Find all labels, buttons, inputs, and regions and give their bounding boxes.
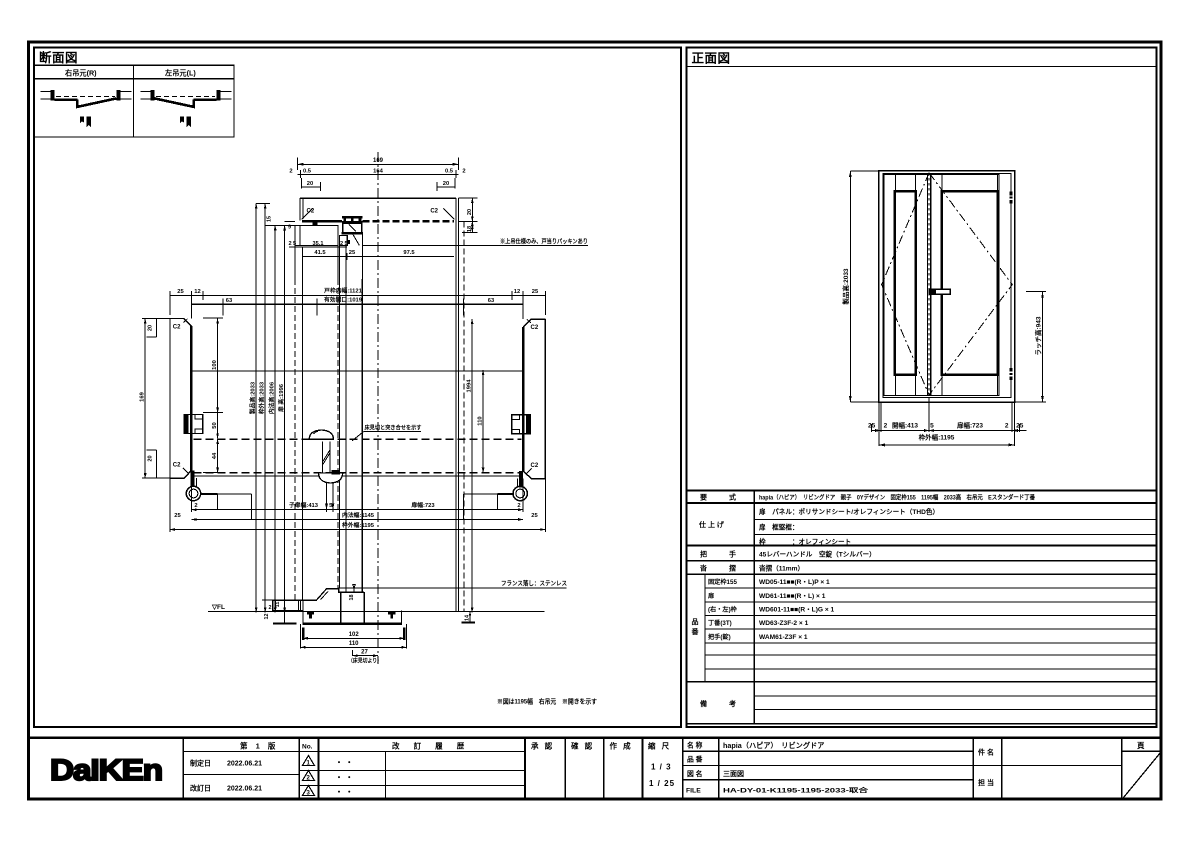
svg-text:（床見切より）: （床見切より） — [348, 657, 382, 665]
dim 100 vertical — [203, 318, 223, 413]
dim row2 line — [298, 170, 459, 178]
svg-text:把手(錠): 把手(錠) — [708, 633, 731, 641]
right jamb C2 top leader — [527, 319, 531, 323]
bottom dim row2 line — [879, 444, 1015, 446]
page cell diagonal — [1122, 751, 1162, 799]
spec table thin row lines 備考 — [754, 696, 1156, 710]
row1 down arrows at 413/5 — [191, 504, 523, 511]
svg-text:枠外高:2033: 枠外高:2033 — [257, 381, 265, 414]
svg-text:固定枠155: 固定枠155 — [708, 578, 737, 586]
dim 44 vertical — [203, 439, 223, 473]
svg-text:2022.06.21: 2022.06.21 — [227, 761, 262, 768]
height dim line 製品高 — [255, 204, 257, 613]
svg-text:制定日: 制定日 — [190, 759, 211, 768]
svg-text:製品高:2033: 製品高:2033 — [248, 381, 256, 414]
sill step profile — [285, 589, 364, 600]
bottom dim row2 line — [191, 519, 523, 521]
svg-text:作 成: 作 成 — [610, 741, 633, 751]
sill T-clip left — [307, 611, 314, 619]
svg-text:・ ・: ・ ・ — [335, 788, 353, 797]
svg-text:内法高:2006: 内法高:2006 — [267, 381, 275, 414]
right hinge mortise fill — [526, 415, 530, 434]
label 床見切 leader — [352, 431, 421, 441]
labels column — [691, 493, 737, 709]
svg-text:20: 20 — [467, 209, 473, 215]
svg-text:第 1 版: 第 1 版 — [240, 741, 278, 751]
svg-text:41.5: 41.5 — [314, 250, 326, 256]
svg-text:左吊元(L): 左吊元(L) — [164, 69, 196, 78]
svg-text:2: 2 — [1005, 423, 1009, 430]
svg-text:枠 ：オレフィンシート: 枠 ：オレフィンシート — [759, 537, 851, 546]
svg-text:式: 式 — [729, 493, 736, 502]
dim 20 left bracket — [302, 178, 321, 191]
svg-text:20: 20 — [307, 181, 313, 187]
svg-text:1 / 25: 1 / 25 — [649, 779, 675, 788]
L-cell frame face thick line — [194, 98, 217, 100]
top dim texts row1: 25 12 戸枠内幅 12 25 — [177, 287, 539, 296]
attachment top tick — [313, 223, 318, 226]
R-cell frame face thick line — [55, 98, 78, 100]
child door swing dash-dot — [882, 173, 930, 395]
dim 35.1 line — [289, 244, 347, 251]
left jamb top edge with chamfer — [170, 319, 191, 327]
handle rose — [929, 289, 936, 294]
opening header line — [191, 370, 523, 372]
svg-text:25: 25 — [531, 513, 538, 519]
seitei/kaitei divider — [183, 774, 299, 776]
svg-text:25: 25 — [349, 250, 356, 256]
svg-text:考: 考 — [729, 699, 736, 708]
L-cell wall lines right — [221, 91, 232, 99]
small box right of attachment — [340, 235, 348, 245]
svg-text:製品高:2033: 製品高:2033 — [841, 268, 850, 306]
dim 102 line — [303, 637, 404, 639]
head frame top line — [300, 197, 456, 199]
left dim 製品高 line — [849, 171, 851, 402]
bottom dim extension verticals — [872, 397, 1020, 446]
left hinge leader — [202, 493, 218, 495]
hinge-type table header underline — [34, 78, 234, 80]
top ticks of height dims — [256, 204, 295, 226]
svg-text:品: 品 — [692, 617, 699, 626]
main door swing dash-dot — [929, 173, 1012, 395]
dim 102 bold end ticks — [302, 628, 304, 641]
svg-text:扉 パネル：ポリサンドシート/オレフィンシート（THD色）: 扉 パネル：ポリサンドシート/オレフィンシート（THD色） — [759, 507, 939, 516]
spec table thin row lines 品番 — [705, 588, 1156, 669]
left panel frame (sectional views) — [34, 48, 681, 728]
latch plate black — [332, 470, 341, 474]
right dashed vertical — [463, 221, 465, 611]
right jamb long verticals — [456, 279, 459, 611]
revision triangle 1 — [303, 756, 315, 766]
door frame inner rect — [883, 173, 1011, 397]
meeting stile left line — [927, 175, 929, 396]
top dim row2 line — [191, 303, 523, 305]
svg-text:25: 25 — [868, 423, 876, 430]
right hinge circle inner — [516, 489, 525, 498]
child door stile lines — [896, 175, 916, 396]
bottom dim row1 line — [872, 430, 1027, 432]
svg-text:25: 25 — [177, 289, 184, 295]
svg-text:FILE: FILE — [686, 788, 701, 795]
sill base inner verticals — [341, 592, 365, 624]
sill left dim ticks — [262, 600, 285, 610]
bottom dim row1 texts — [194, 501, 520, 509]
door leaf band top dashed — [194, 438, 522, 440]
left jamb C2 bottom leader — [183, 468, 189, 474]
svg-text:C2: C2 — [531, 463, 539, 469]
door top rail dark band — [343, 221, 362, 224]
svg-text:WD601-11■■(R・L)G × 1: WD601-11■■(R・L)G × 1 — [759, 607, 835, 614]
svg-text:HA-DY-01-K1195-1195-2033-取合: HA-DY-01-K1195-1195-2033-取合 — [723, 787, 869, 795]
svg-text:1 / 3: 1 / 3 — [651, 763, 672, 772]
svg-text:1994: 1994 — [467, 379, 473, 393]
svg-text:No.: No. — [302, 744, 313, 751]
left jamb bottom edge with chamfer — [170, 471, 191, 479]
svg-text:番: 番 — [691, 627, 700, 636]
left hinge circle inner — [189, 489, 198, 498]
svg-text:フランス落し：ステンレス: フランス落し：ステンレス — [501, 580, 567, 588]
svg-text:2: 2 — [517, 503, 520, 509]
svg-text:枠外幅:1195: 枠外幅:1195 — [342, 521, 375, 529]
head frame left edge double — [300, 198, 303, 221]
small black square — [346, 240, 350, 244]
handle top inner mark — [314, 431, 319, 434]
svg-text:改 訂 履 歴: 改 訂 履 歴 — [392, 741, 470, 751]
page cell row line — [1122, 750, 1162, 752]
svg-text:C2: C2 — [531, 325, 539, 331]
height dim arrows bottom — [255, 608, 286, 613]
svg-text:戸枠内幅:1121: 戸枠内幅:1121 — [324, 287, 362, 295]
svg-text:169: 169 — [140, 391, 146, 401]
dim 169 line with ends — [298, 158, 459, 171]
meeting stile right line — [930, 175, 932, 396]
centre axis dash-dot line — [377, 152, 379, 664]
head frame right edge double — [456, 198, 459, 279]
svg-text:100: 100 — [212, 360, 218, 370]
svg-text:頁: 頁 — [1137, 741, 1145, 750]
head right dim arrows — [471, 198, 474, 232]
svg-text:2022.06.21: 2022.06.21 — [227, 786, 262, 793]
right dim arrows — [471, 319, 485, 612]
svg-text:25: 25 — [1016, 423, 1024, 430]
svg-text:※図は1195幅 右吊元 ※開きを示す: ※図は1195幅 右吊元 ※開きを示す — [497, 696, 598, 705]
svg-text:18: 18 — [349, 595, 355, 601]
left hinge circle outer — [186, 486, 200, 500]
svg-text:2: 2 — [462, 169, 465, 175]
revision row lines — [299, 770, 525, 772]
svg-text:hapia（ハピア） リビングドア: hapia（ハピア） リビングドア — [723, 741, 824, 750]
left hinge mortise — [184, 415, 203, 434]
left hinge stem — [191, 471, 195, 487]
dim 18 in sill — [353, 584, 355, 592]
right hinge mortise — [512, 415, 531, 434]
svg-text:床見切と突き合せを示す: 床見切と突き合せを示す — [365, 424, 422, 432]
L-cell section cut symbol — [180, 117, 191, 128]
svg-text:20: 20 — [147, 455, 153, 461]
L-cell right jamb block — [216, 90, 220, 101]
svg-text:20: 20 — [443, 181, 449, 187]
right jamb inner face — [522, 327, 524, 471]
svg-text:沓摺（11mm）: 沓摺（11mm） — [758, 564, 804, 573]
svg-text:ラッチ高:943: ラッチ高:943 — [1033, 316, 1042, 355]
child door panel rect — [895, 191, 916, 374]
bottom dim row1 arrows — [875, 429, 1018, 432]
品番 sub labels — [707, 578, 738, 641]
svg-text:・ ・: ・ ・ — [335, 758, 353, 767]
svg-text:hapia（ハピア） リビングドア 親子 0Yデザイン 固定: hapia（ハピア） リビングドア 親子 0Yデザイン 固定枠155 1195幅… — [759, 494, 1036, 502]
svg-text:DaIKEn: DaIKEn — [50, 754, 162, 787]
right dim ラッチ高 extension lines — [1015, 292, 1046, 402]
R-cell wall lines left — [41, 91, 52, 99]
attachment inner vertical — [299, 225, 301, 245]
name column row lines — [683, 750, 973, 752]
svg-text:12: 12 — [194, 289, 200, 295]
svg-text:断面図: 断面図 — [39, 50, 78, 65]
step hatch — [318, 591, 329, 600]
svg-text:正面図: 正面図 — [692, 52, 731, 66]
svg-text:27: 27 — [361, 649, 368, 655]
hinge top — [1010, 192, 1013, 204]
R-cell wall lines right — [121, 91, 132, 99]
svg-text:扉幅:723: 扉幅:723 — [957, 421, 983, 430]
svg-text:110: 110 — [478, 416, 484, 425]
sill base sides — [303, 611, 402, 624]
svg-text:12: 12 — [264, 614, 270, 620]
svg-text:・ ・: ・ ・ — [335, 773, 353, 782]
dim row 41.5 / 25 / 97.5 texts — [314, 250, 415, 256]
spindle break marks — [323, 450, 330, 465]
revision header row line — [183, 750, 525, 752]
dim 50 vertical — [217, 413, 219, 439]
svg-text:▽FL: ▽FL — [211, 604, 225, 611]
R-cell left jamb block — [50, 90, 54, 101]
door leaves outline rect — [884, 175, 999, 396]
svg-text:102: 102 — [349, 632, 360, 638]
svg-text:12: 12 — [514, 289, 520, 295]
right hinge mortise notch — [512, 415, 520, 434]
svg-text:WAM61-Z3F × 1: WAM61-Z3F × 1 — [759, 634, 808, 641]
svg-text:C2: C2 — [430, 209, 438, 215]
svg-text:(右・左)枠: (右・左)枠 — [708, 606, 738, 614]
svg-text:扉幅:723: 扉幅:723 — [410, 501, 435, 509]
title block vertical dividers — [183, 738, 1122, 800]
revision triangle 3 — [303, 786, 315, 796]
svg-text:2: 2 — [340, 241, 343, 247]
content column — [758, 494, 1036, 641]
hinge-type table border — [34, 65, 234, 137]
svg-text:丁番(3T): 丁番(3T) — [708, 619, 732, 627]
right hinge stem — [519, 471, 523, 487]
dim texts 2 5 35.1 2 5 — [288, 241, 347, 247]
svg-text:承 認: 承 認 — [531, 741, 554, 751]
spec table 品番 sub divider — [704, 574, 706, 681]
head frame bottom face left part — [302, 220, 342, 222]
svg-text:2: 2 — [288, 241, 291, 247]
note leader line — [362, 244, 588, 246]
svg-text:110: 110 — [349, 641, 359, 647]
svg-text:14: 14 — [465, 615, 471, 621]
spec table thick section lines — [687, 491, 1157, 724]
dim 27 tick — [352, 650, 354, 656]
svg-text:名 称: 名 称 — [687, 741, 703, 750]
height dim line 枠外高 — [264, 204, 266, 613]
right hinge leader — [497, 493, 513, 495]
L-cell left jamb block — [150, 90, 154, 101]
left 169 dim line — [144, 319, 146, 479]
door core diagonal hatch — [349, 225, 356, 232]
svg-text:18: 18 — [467, 226, 473, 232]
svg-text:WD05-11■■(R・L)P × 1: WD05-11■■(R・L)P × 1 — [759, 579, 830, 586]
svg-text:WD63-Z3F-2 × 1: WD63-Z3F-2 × 1 — [759, 620, 809, 627]
right jamb outer edge — [544, 319, 546, 479]
right jamb C2 bottom leader — [526, 469, 532, 475]
L-cell closed-door dash line — [156, 95, 215, 97]
svg-text:44: 44 — [212, 452, 218, 459]
svg-text:件 名: 件 名 — [978, 748, 994, 757]
bottom dim row1 line — [191, 509, 523, 511]
left dim 製品高 extension lines — [850, 171, 879, 402]
svg-text:2: 2 — [194, 503, 197, 509]
right panel title underline — [687, 65, 1157, 67]
svg-text:20: 20 — [147, 325, 153, 331]
height dim arrows top — [255, 204, 286, 231]
dim 110 ext verticals — [301, 624, 407, 649]
svg-text:C2: C2 — [173, 463, 181, 469]
main door panel rect — [942, 191, 998, 374]
revision triangle 2 — [303, 771, 315, 781]
head frame bottom face right part (door stop, dashed) — [363, 220, 454, 222]
svg-text:2: 2 — [884, 423, 888, 430]
svg-text:0.5: 0.5 — [445, 169, 454, 175]
svg-text:品 番: 品 番 — [687, 755, 703, 764]
spec table thin row lines 仕上げ — [754, 519, 1156, 534]
svg-text:15: 15 — [267, 216, 273, 222]
bottom dim extension verticals — [170, 478, 545, 532]
svg-text:扉 高:1996: 扉 高:1996 — [277, 383, 285, 413]
svg-text:2: 2 — [269, 605, 272, 611]
svg-text:縮 尺: 縮 尺 — [648, 741, 671, 751]
svg-text:内法幅:1145: 内法幅:1145 — [342, 511, 375, 519]
svg-text:扉 框堅框：: 扉 框堅框： — [759, 523, 799, 532]
svg-text:改訂日: 改訂日 — [190, 784, 211, 793]
dim 169 arrows — [298, 163, 459, 166]
svg-text:25: 25 — [532, 289, 539, 295]
bottom dim row1 texts — [868, 421, 1024, 430]
main door stile lines — [942, 175, 997, 396]
sill base bottom thick — [303, 622, 403, 625]
svg-text:97.5: 97.5 — [403, 250, 415, 256]
door top rail bottom thick — [342, 232, 363, 235]
door top rail body — [343, 222, 362, 234]
dim row line 41.5/25/97.5 — [302, 253, 454, 260]
sill left attachment box — [273, 600, 303, 610]
dim 110 line — [301, 646, 407, 648]
63 dim end ticks — [223, 299, 463, 316]
left chamfer C2 — [302, 208, 313, 219]
right chamfer C2 — [443, 208, 454, 219]
left hinge mortise fill — [184, 415, 189, 434]
row1 tick lines at meeting stile — [327, 494, 333, 510]
door top rail tabs — [343, 219, 346, 222]
svg-text:確 認: 確 認 — [570, 741, 594, 751]
door frame outer rect — [879, 171, 1015, 403]
left 20 dim top — [142, 319, 170, 337]
svg-text:63: 63 — [226, 298, 233, 304]
svg-text:0.5: 0.5 — [303, 169, 312, 175]
svg-text:要: 要 — [700, 493, 707, 502]
svg-text:三面図: 三面図 — [723, 769, 744, 778]
svg-text:把: 把 — [700, 550, 707, 559]
svg-text:※上吊仕様のみ、戸当りパッキンあり: ※上吊仕様のみ、戸当りパッキンあり — [500, 237, 588, 245]
right dim ラッチ高 line — [1042, 292, 1044, 402]
hinge bottom — [1010, 368, 1013, 380]
right hinge circle outer — [513, 486, 527, 500]
svg-text:子扉幅:413: 子扉幅:413 — [289, 501, 319, 509]
rev-history inner divider — [385, 751, 387, 799]
bottom dim row2 texts — [174, 511, 538, 519]
svg-text:摺: 摺 — [729, 564, 736, 573]
head left attachment box — [295, 225, 338, 245]
svg-text:5: 5 — [930, 423, 934, 430]
height dim line 内法高 — [274, 225, 276, 612]
floor line FL — [208, 611, 544, 613]
door top cap thick — [342, 216, 363, 219]
R-cell closed-door dash line — [56, 95, 115, 97]
svg-text:WD61-11■■(R・L) × 1: WD61-11■■(R・L) × 1 — [759, 593, 826, 600]
svg-text:右吊元(R): 右吊元(R) — [64, 69, 97, 78]
svg-text:図 名: 図 名 — [687, 769, 702, 778]
svg-text:有効開口:1019: 有効開口:1019 — [324, 296, 363, 304]
left jamb outer edge — [169, 319, 171, 479]
sill T-clip right — [388, 611, 395, 619]
handle bottom dome — [319, 473, 343, 483]
svg-text:2: 2 — [289, 169, 292, 175]
L-cell wall lines left — [141, 91, 152, 99]
spec table label/content divider — [753, 491, 755, 724]
svg-text:開幅:413: 開幅:413 — [892, 421, 918, 430]
top dim row1 line — [170, 291, 545, 319]
left hinge mortise notch — [195, 415, 203, 434]
lever handle — [929, 289, 950, 294]
door leaf band bottom dashed — [194, 472, 522, 474]
L-cell door leaf open (thick diagonal) — [155, 98, 194, 107]
bottom dim row3 line — [170, 529, 545, 531]
svg-text:35.1: 35.1 — [313, 241, 324, 247]
top dim row2 texts: 63 有効開口 63 — [226, 296, 495, 304]
right dim vertical 110 — [482, 370, 484, 472]
svg-text:手: 手 — [729, 550, 736, 559]
svg-text:50: 50 — [212, 422, 218, 428]
hinge-type table center divider — [133, 65, 135, 137]
svg-text:担 当: 担 当 — [978, 778, 994, 787]
dim 20 right bracket — [437, 178, 455, 191]
attachment double vertical — [298, 600, 300, 610]
left small dim 9 — [285, 220, 296, 222]
svg-text:45レバーハンドル 空錠（Tシルバー）: 45レバーハンドル 空錠（Tシルバー） — [759, 550, 876, 559]
right side 14 dim — [462, 622, 476, 624]
R-cell section cut symbol — [80, 117, 91, 128]
attachment base thick stub — [273, 622, 297, 624]
title block top border — [28, 737, 1162, 739]
head right vertical dim line — [471, 198, 473, 232]
right dim vertical 1994 — [471, 319, 473, 612]
svg-text:C2: C2 — [307, 209, 315, 215]
left 20 dim bottom — [142, 450, 170, 478]
left jamb inner face — [190, 326, 192, 470]
right jamb bottom edge with chamfer — [523, 471, 545, 479]
french bolt leader line — [339, 587, 567, 589]
